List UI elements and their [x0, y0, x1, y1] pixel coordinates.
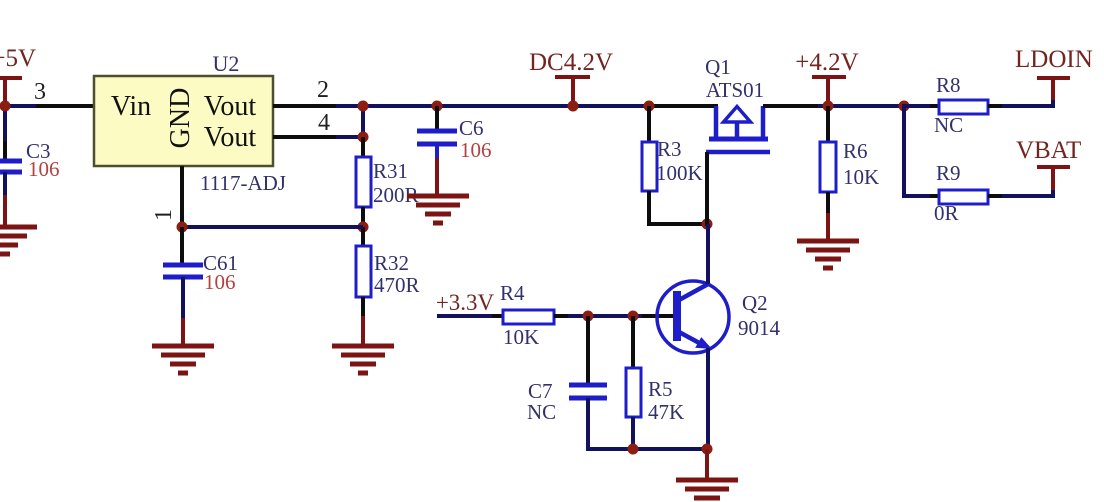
wire +5V rail down to C3	[3, 104, 7, 141]
svg-text:10K: 10K	[503, 325, 539, 349]
ground below C3	[0, 227, 37, 254]
wire +5V rail to pin3	[5, 104, 36, 108]
pin 1 (GND) of U2	[180, 166, 184, 227]
pin of R31 bottom	[361, 207, 365, 229]
wire node to R8	[902, 104, 930, 108]
wire R3 bottom to gate node	[647, 191, 651, 226]
svg-text:+5V: +5V	[0, 45, 36, 72]
svg-text:ATS01: ATS01	[706, 78, 764, 102]
transistor Q2 (NPN 9014)	[657, 281, 729, 353]
power port +4.2V	[795, 49, 858, 106]
ground below C61	[152, 346, 214, 373]
wire R4 to Q2 base	[554, 314, 568, 318]
svg-text:GND: GND	[165, 88, 196, 149]
wire adj node to C61	[182, 225, 363, 229]
wire C61 to ground	[181, 277, 185, 318]
svg-text:NC: NC	[527, 400, 556, 424]
capacitor C7	[569, 385, 607, 398]
svg-text:C6: C6	[459, 116, 484, 140]
svg-text:VBAT: VBAT	[1016, 137, 1081, 164]
wire Q1 gate down	[705, 152, 709, 226]
capacitor C61	[163, 265, 203, 277]
svg-text:NC: NC	[934, 113, 963, 137]
ground below Q2	[676, 480, 738, 498]
wire C3 to ground	[3, 172, 7, 195]
resistor R3	[642, 142, 657, 191]
svg-text:DC4.2V: DC4.2V	[529, 49, 613, 76]
svg-text:4: 4	[318, 110, 330, 136]
pin 3 of U2	[36, 104, 94, 108]
svg-text:1117-ADJ: 1117-ADJ	[200, 171, 286, 195]
svg-text:R6: R6	[843, 139, 868, 163]
svg-text:Q2: Q2	[742, 291, 768, 315]
bottom wire C7/R5/emitter	[586, 447, 709, 451]
wire R6 to ground	[826, 192, 830, 213]
junction dot gate node	[702, 219, 713, 230]
pin 4 of U2	[273, 135, 336, 139]
svg-text:106: 106	[28, 157, 60, 181]
pin R3 top	[647, 106, 651, 143]
svg-text:R31: R31	[373, 159, 408, 183]
resistor R32	[356, 246, 371, 297]
svg-text:U2: U2	[213, 51, 240, 76]
wire R8 to LDOIN	[988, 104, 1002, 108]
svg-text:R4: R4	[500, 281, 525, 305]
junction dot emitter node	[702, 444, 713, 455]
svg-text:Vout: Vout	[204, 91, 257, 122]
wire C6 to ground	[435, 145, 439, 160]
regulator U2 body	[94, 76, 273, 166]
svg-text:106: 106	[460, 138, 492, 162]
junction dot C61 node	[177, 222, 188, 233]
junction dot R5 node	[628, 311, 639, 322]
svg-text:R8: R8	[936, 73, 961, 97]
capacitor C6	[417, 131, 457, 144]
pin 2 of U2	[273, 104, 336, 108]
svg-text:R32: R32	[374, 251, 409, 275]
power port +5V	[0, 45, 36, 106]
svg-text:Q1: Q1	[705, 55, 731, 79]
junction dot C7 node	[583, 311, 594, 322]
wire Q2 collector up	[706, 281, 710, 284]
svg-text:106: 106	[204, 270, 236, 294]
wire node down to R9	[902, 104, 906, 198]
svg-text:1: 1	[151, 209, 177, 221]
svg-text:10K: 10K	[843, 165, 879, 189]
svg-text:+4.2V: +4.2V	[795, 49, 858, 76]
wire node pin2 down to pin4 node	[361, 104, 365, 139]
svg-text:Vin: Vin	[111, 91, 151, 122]
svg-text:2: 2	[317, 77, 329, 103]
power port VBAT	[1016, 137, 1081, 190]
junction dot DC4.2V	[568, 101, 579, 112]
resistor R6	[820, 142, 836, 192]
resistor R31	[356, 157, 371, 207]
svg-text:R3: R3	[657, 137, 682, 161]
svg-text:R9: R9	[936, 161, 961, 185]
junction dot R8/R9 node	[899, 101, 910, 112]
capacitor C3	[0, 161, 22, 172]
pin C61 top	[180, 227, 184, 264]
wire emitter node to ground	[705, 449, 709, 480]
ground below C6	[407, 196, 469, 223]
power port DC4.2V	[529, 49, 613, 106]
wire gate node to Q2 collector	[706, 224, 710, 284]
resistor R8	[939, 100, 988, 114]
resistor R5	[626, 368, 641, 417]
junction dot adj node	[358, 222, 369, 233]
ground below R32	[332, 346, 394, 373]
junction dot C6 node	[432, 101, 443, 112]
resistor R9	[939, 190, 988, 204]
junction dot +4.2V	[823, 101, 834, 112]
main wire pin2 to Q1	[336, 104, 651, 108]
wire +3.3V to R4	[437, 314, 492, 318]
resistor R4	[503, 310, 554, 324]
wire C7 bottom	[586, 398, 590, 451]
pin C7 top	[586, 316, 590, 385]
wire Q1 drain to +4.2V	[763, 104, 818, 108]
svg-text:R5: R5	[648, 377, 673, 401]
junction dot R5 bottom	[628, 444, 639, 455]
power port LDOIN	[1015, 46, 1093, 100]
pin of R31 top	[361, 137, 365, 158]
pin R6 top	[826, 106, 830, 143]
svg-text:3: 3	[34, 79, 46, 105]
svg-text:+3.3V: +3.3V	[436, 290, 495, 315]
svg-text:0R: 0R	[934, 201, 959, 225]
pin C6 top	[435, 106, 439, 132]
transistor Q1 (P-MOSFET)	[706, 106, 770, 152]
svg-text:LDOIN: LDOIN	[1015, 46, 1093, 73]
svg-text:47K: 47K	[648, 400, 684, 424]
svg-text:9014: 9014	[738, 316, 781, 340]
svg-text:Vout: Vout	[204, 122, 257, 153]
wire R32 to ground	[361, 316, 365, 346]
junction dot R3 node	[644, 101, 655, 112]
pin of R32 top	[361, 227, 365, 247]
ground below R6	[797, 241, 859, 268]
svg-text:470R: 470R	[374, 273, 420, 297]
pin R5 top	[631, 316, 635, 369]
wire R9 to VBAT	[988, 194, 1002, 198]
pin of R32 bottom	[361, 297, 365, 316]
junction dot +5V rail	[0, 101, 11, 112]
junction dot pin4 node	[358, 132, 369, 143]
wire Q2 emitter down	[706, 348, 710, 451]
junction dot pin2 node	[358, 101, 369, 112]
pin R5 bottom	[631, 417, 635, 449]
svg-text:100K: 100K	[656, 161, 703, 185]
wire pin4	[336, 135, 363, 139]
